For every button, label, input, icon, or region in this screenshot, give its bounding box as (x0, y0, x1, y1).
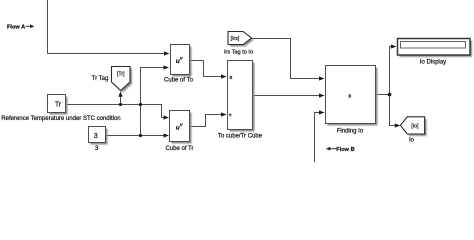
svg-text:Io Display: Io Display (420, 60, 446, 66)
svg-text:Io: Io (409, 138, 415, 144)
svg-text:Irs Tag to Io: Irs Tag to Io (224, 50, 253, 56)
svg-text:Tr: Tr (55, 101, 62, 108)
svg-text:Cube of Tr: Cube of Tr (165, 146, 193, 152)
svg-text:3: 3 (94, 131, 98, 140)
svg-text:x: x (229, 75, 232, 81)
svg-text:[Io]: [Io] (411, 124, 419, 130)
svg-text:Cube of To: Cube of To (164, 78, 194, 84)
svg-text:Flow A: Flow A (7, 24, 25, 30)
svg-text:3: 3 (95, 145, 99, 152)
svg-text:Finding Io: Finding Io (337, 129, 364, 135)
svg-text:÷: ÷ (229, 113, 232, 119)
svg-text:Flow B: Flow B (336, 147, 354, 153)
svg-text:x: x (348, 93, 351, 99)
svg-text:[Tr]: [Tr] (117, 72, 125, 78)
svg-text:To cube/Tr Cube: To cube/Tr Cube (218, 134, 263, 140)
svg-text:v: v (180, 122, 183, 127)
svg-text:[Irs]: [Irs] (231, 36, 240, 42)
svg-text:Tr Tag: Tr Tag (92, 76, 109, 82)
svg-text:Reference Temperature under ST: Reference Temperature under STC conditio… (1, 116, 120, 122)
svg-text:v: v (180, 56, 183, 61)
